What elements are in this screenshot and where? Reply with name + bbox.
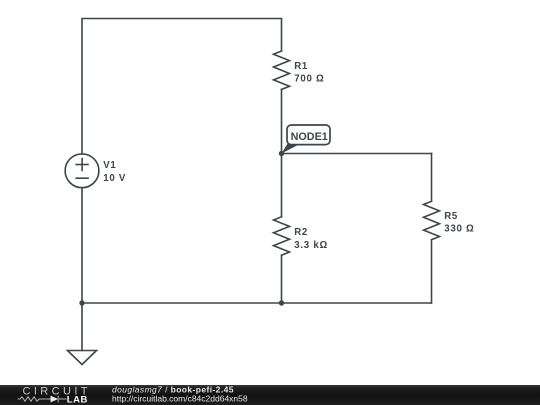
svg-text:NODE1: NODE1: [291, 131, 328, 143]
svg-text:330 Ω: 330 Ω: [444, 224, 474, 235]
svg-text:10 V: 10 V: [103, 173, 126, 184]
svg-text:R5: R5: [444, 211, 458, 222]
svg-text:R1: R1: [294, 61, 308, 72]
svg-text:http://circuitlab.com/c84c2dd6: http://circuitlab.com/c84c2dd64xn58: [112, 393, 248, 403]
svg-text:V1: V1: [103, 160, 116, 171]
svg-text:3.3 kΩ: 3.3 kΩ: [294, 240, 328, 251]
svg-text:R2: R2: [294, 227, 308, 238]
svg-text:LAB: LAB: [67, 395, 88, 405]
svg-text:700 Ω: 700 Ω: [294, 74, 324, 85]
